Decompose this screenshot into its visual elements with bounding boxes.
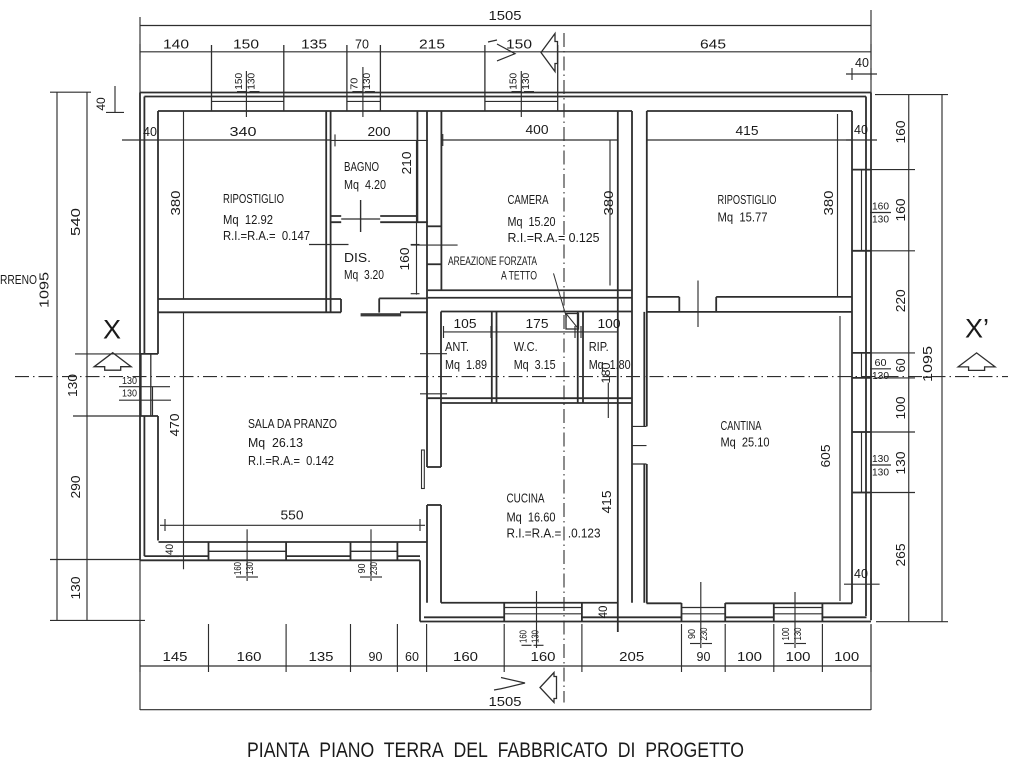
svg-text:550: 550 — [281, 509, 304, 523]
svg-text:X’: X’ — [965, 314, 989, 344]
svg-text:ANT.: ANT. — [445, 339, 469, 354]
wall right inner face — [851, 111, 853, 603]
svg-text:175: 175 — [526, 317, 549, 331]
svg-text:145: 145 — [163, 650, 188, 664]
dim tick cantina window — [794, 592, 796, 648]
left chain tick y=559.5 — [50, 559, 140, 561]
svg-text:415: 415 — [736, 124, 759, 138]
svg-text:Mq 15.20: Mq 15.20 — [508, 214, 556, 229]
right chain line — [908, 95, 910, 622]
extension line top-left corner — [139, 17, 141, 93]
svg-text:380: 380 — [602, 190, 616, 215]
wall left inner face — [157, 111, 159, 541]
svg-text:130: 130 — [246, 73, 258, 90]
svg-text:Mq 15.77: Mq 15.77 — [718, 210, 768, 225]
vent leader line — [554, 273, 567, 317]
svg-text:160: 160 — [518, 630, 530, 643]
svg-text:100: 100 — [894, 396, 908, 419]
extension line bottom-left — [139, 560, 141, 710]
wall right second line — [865, 97, 867, 617]
wall top inner face — [158, 110, 852, 112]
svg-text:CAMERA: CAMERA — [508, 192, 549, 207]
svg-text:40: 40 — [143, 125, 157, 139]
svg-text:40: 40 — [855, 56, 869, 70]
svg-text:150: 150 — [508, 73, 520, 90]
svg-text:130: 130 — [530, 630, 542, 643]
window w2 mullion — [362, 67, 364, 117]
svg-text:130: 130 — [792, 627, 804, 640]
dim chain bottom tick x=581.9 — [581, 624, 583, 672]
wall bottom-left outer face — [140, 559, 420, 561]
bagno door leaf — [360, 200, 362, 232]
camera bottom wall second line — [428, 297, 632, 299]
dim line 340 ripostiglio — [122, 139, 331, 141]
extension line bottom-right — [870, 625, 872, 710]
right window 160 jambs — [852, 169, 871, 171]
section mark > top — [497, 44, 515, 61]
window w1 top jambs — [211, 45, 213, 111]
dim 550 ticks — [164, 519, 166, 531]
cucina window 160 jambs — [503, 603, 505, 622]
cantina window 100 jambs — [773, 603, 775, 622]
ripostiglio-right bottom face — [647, 296, 852, 298]
right window 130 jambs — [852, 431, 871, 433]
sala door 90 sill line — [351, 550, 398, 552]
right window 130 frame — [861, 432, 863, 493]
shaft rung lower — [427, 263, 441, 265]
right window 160 frame — [861, 170, 863, 251]
svg-text:Mq 25.10: Mq 25.10 — [721, 435, 770, 450]
divider wc/rip — [577, 312, 579, 404]
small-rooms block left wall outer — [426, 312, 428, 543]
sala window 160 jambs — [208, 542, 210, 560]
right chain tick y=492.5 — [852, 492, 915, 494]
band wall left upper line — [158, 297, 428, 300]
dim small tick x=617.8 — [617, 326, 619, 338]
window w1 sill line — [212, 100, 284, 102]
left chain tick y=92.2 — [50, 91, 91, 93]
ant door tick lower — [420, 393, 447, 395]
dim chain bottom tick x=681.5 — [681, 624, 683, 672]
dim small tick x=581 — [580, 326, 582, 338]
svg-text:230: 230 — [368, 562, 380, 575]
svg-text:SALA DA PRANZO: SALA DA PRANZO — [248, 416, 337, 431]
svg-text:130: 130 — [244, 562, 256, 575]
dim chain bottom tick x=871 — [870, 624, 872, 672]
section arrow left (up) — [94, 353, 131, 371]
dim chain top line — [140, 51, 871, 53]
dim line 605 cantina — [839, 316, 841, 601]
dim tick sala window — [246, 529, 248, 581]
cucina door leaf — [422, 450, 425, 489]
svg-text:160: 160 — [894, 120, 908, 143]
wall bottom inner face cantina — [647, 602, 853, 604]
svg-text:605: 605 — [819, 444, 833, 467]
svg-text:150: 150 — [506, 38, 532, 52]
small-rooms bottom wall lower — [441, 402, 632, 404]
svg-text:130: 130 — [872, 370, 889, 382]
dim small tick x=575 — [574, 326, 576, 338]
shaft left line — [426, 111, 428, 312]
dim small tick x=443.5 — [443, 326, 445, 338]
wall bottom-left inner face — [159, 541, 428, 543]
left chain tick y=416 — [73, 415, 140, 417]
wall top second line — [144, 96, 866, 98]
svg-text:380: 380 — [822, 190, 836, 215]
dim line 400 camera — [441, 139, 617, 141]
svg-text:Mq 3.15: Mq 3.15 — [514, 357, 556, 372]
svg-text:RIP.: RIP. — [589, 339, 609, 354]
dim line 1505 bottom — [140, 709, 871, 711]
small-rooms block left wall inner — [440, 312, 442, 603]
partition ripostiglio/bagno right line — [330, 111, 332, 313]
svg-text:130: 130 — [122, 375, 137, 387]
dim 40 line right top — [846, 73, 877, 75]
svg-text:470: 470 — [168, 413, 182, 436]
dim chain top tick x=871 — [870, 44, 872, 60]
svg-text:160: 160 — [398, 247, 412, 270]
entrance door panel — [140, 354, 142, 416]
svg-text:130: 130 — [69, 576, 83, 599]
section line X-X horizontal dash-dot — [15, 376, 1008, 378]
right inner sep 1 — [870, 212, 891, 214]
step wall outer — [419, 560, 421, 621]
ripostiglio-right door jambs — [678, 297, 680, 312]
svg-text:140: 140 — [163, 38, 189, 52]
svg-text:R.I.=R.A.= .0.123: R.I.=R.A.= .0.123 — [507, 526, 601, 541]
entrance door frame — [152, 387, 154, 416]
dim chain bottom tick x=286.1 — [285, 624, 287, 672]
svg-text:DIS.: DIS. — [344, 250, 371, 265]
sala door 90 jambs — [350, 542, 352, 560]
dim line 1505 top — [140, 25, 871, 27]
svg-text:130: 130 — [122, 388, 137, 400]
left chain line — [86, 92, 88, 620]
svg-text:A TETTO: A TETTO — [501, 269, 537, 283]
svg-text:90: 90 — [369, 650, 383, 664]
svg-text:130: 130 — [361, 73, 373, 90]
step wall inner — [426, 542, 428, 603]
svg-text:340: 340 — [230, 125, 257, 139]
svg-text:R.I.=R.A.= 0.147: R.I.=R.A.= 0.147 — [223, 228, 310, 243]
divider ant/wc — [491, 312, 493, 404]
dim small tick x=491 — [490, 326, 492, 338]
svg-text:130: 130 — [66, 374, 80, 397]
svg-text:RRENO: RRENO — [0, 273, 37, 287]
right chain tick y=352.9 — [852, 352, 915, 354]
partition camera/ripostiglio-right left line — [617, 111, 619, 632]
svg-text:100: 100 — [786, 650, 811, 664]
window w1 mullion — [245, 71, 247, 117]
camera interior line y245 — [411, 244, 458, 246]
window w3 top jambs — [484, 45, 486, 111]
svg-text:100: 100 — [834, 650, 859, 664]
svg-text:AREAZIONE FORZATA: AREAZIONE FORZATA — [448, 254, 538, 268]
svg-text:Mq 16.60: Mq 16.60 — [507, 510, 556, 525]
camera bottom wall inner face — [441, 311, 632, 313]
left chain tick y=112.4 — [106, 111, 124, 113]
svg-text:90: 90 — [697, 650, 711, 664]
bagno bottom wall — [331, 216, 428, 222]
section arrow top (left) — [541, 34, 558, 72]
dim line 210 bagno — [416, 140, 418, 294]
dim 40 ticks right top — [851, 68, 853, 80]
wall outer right face — [870, 93, 872, 621]
svg-text:R.I.=R.A.= 0.142: R.I.=R.A.= 0.142 — [248, 453, 334, 468]
svg-text:BAGNO: BAGNO — [344, 159, 379, 174]
right inner sep 2 — [870, 368, 891, 370]
svg-text:540: 540 — [69, 208, 83, 236]
dim chain bottom tick x=140 — [139, 624, 141, 672]
svg-text:215: 215 — [419, 38, 445, 52]
svg-text:PIANTA PIANO TERRA DEL FAB: PIANTA PIANO TERRA DEL FABBRICATO DI PRO… — [247, 739, 744, 762]
svg-text:Mq 26.13: Mq 26.13 — [248, 435, 303, 450]
dim tick cantina door — [700, 582, 702, 648]
right window 60 frame — [861, 353, 863, 378]
cantina door tick — [697, 281, 699, 328]
right chain tick y=621.7 — [876, 621, 948, 623]
dim line 380 camera — [609, 140, 611, 286]
partition camera/ripostiglio-right right line — [631, 111, 633, 603]
svg-text:230: 230 — [698, 627, 710, 640]
svg-text:130: 130 — [872, 467, 889, 479]
svg-text:645: 645 — [700, 38, 726, 52]
dim chain top tick x=140 — [139, 44, 141, 60]
svg-text:130: 130 — [872, 453, 889, 465]
svg-text:40: 40 — [94, 97, 108, 111]
right chain tick y=250.8 — [852, 250, 915, 252]
window w3 mullion — [520, 71, 522, 117]
shaft right wall outer line — [643, 312, 645, 603]
dim chain bottom tick x=822.4 — [821, 624, 823, 672]
svg-text:150: 150 — [233, 38, 259, 52]
dim line 105-175-100 — [444, 331, 618, 333]
svg-text:1505: 1505 — [489, 9, 522, 23]
camera bottom wall top face — [428, 289, 632, 291]
cantina side door lines — [632, 426, 647, 464]
section mark > bottom — [501, 678, 525, 689]
right chain tick y=432 — [852, 431, 915, 433]
entrance label separator — [119, 386, 170, 388]
dim chain bottom tick x=504.2 — [503, 624, 505, 672]
svg-text:1095: 1095 — [38, 272, 52, 308]
dim chain bottom tick x=426.6 — [426, 624, 428, 672]
band wall cap at dis door — [340, 299, 342, 312]
svg-text:60: 60 — [894, 358, 908, 372]
right window 60 jambs — [852, 352, 871, 354]
wall bottom second line — [424, 616, 867, 618]
svg-text:380: 380 — [169, 190, 183, 215]
svg-text:60: 60 — [875, 357, 887, 369]
section line Y-Y vertical dash-dot — [563, 33, 565, 703]
cantina top face — [647, 311, 852, 313]
svg-text:400: 400 — [526, 123, 549, 137]
svg-text:160: 160 — [531, 650, 556, 664]
extension line top-right corner — [870, 10, 872, 93]
svg-text:105: 105 — [454, 317, 477, 331]
shaft right line — [440, 111, 442, 290]
dim chain bottom tick x=350.5 — [350, 624, 352, 672]
dim chain bottom tick x=773.8 — [773, 624, 775, 672]
svg-text:40: 40 — [164, 544, 176, 555]
sala window 160 sill line — [209, 550, 287, 552]
partition ripostiglio/bagno left line — [325, 111, 327, 313]
right chain tick y=94.6 — [875, 94, 948, 96]
dis door dark mark — [361, 313, 402, 316]
svg-text:40: 40 — [598, 606, 610, 619]
svg-text:160: 160 — [232, 562, 244, 575]
svg-text:Mq 1.89: Mq 1.89 — [445, 357, 487, 372]
svg-text:415: 415 — [600, 490, 614, 513]
ant door tick upper — [420, 353, 447, 355]
band wall left lower line — [158, 311, 428, 313]
wall outer left face — [139, 93, 141, 561]
left chain tick y=353.9 — [75, 353, 140, 355]
section arrow right (up) — [958, 353, 995, 371]
svg-text:X: X — [103, 315, 121, 345]
svg-text:R.I.=R.A.= 0.125: R.I.=R.A.= 0.125 — [508, 230, 600, 245]
wc vent duct — [566, 314, 579, 330]
ripostiglio door tick — [309, 244, 349, 246]
svg-text:W.C.: W.C. — [514, 339, 538, 354]
svg-text:90: 90 — [686, 629, 698, 639]
svg-text:Mq 4.20: Mq 4.20 — [344, 177, 386, 192]
entrance label separator lower — [119, 399, 171, 401]
window w2 top jambs — [346, 45, 348, 111]
dim chain bottom tick x=397.4 — [396, 624, 398, 672]
dim tick sala door — [370, 529, 372, 581]
svg-text:CUCINA: CUCINA — [507, 491, 545, 506]
svg-text:100: 100 — [598, 317, 621, 331]
wall bottom-left second line — [144, 555, 420, 557]
svg-text:200: 200 — [368, 125, 391, 139]
right chain tick y=169.6 — [852, 169, 915, 171]
dim small tick x=496.5 — [496, 326, 498, 338]
section arrow bottom (left) — [540, 673, 557, 703]
svg-text:160: 160 — [894, 198, 908, 221]
svg-text:Mq 12.92: Mq 12.92 — [223, 212, 273, 227]
svg-text:1095: 1095 — [921, 346, 935, 382]
shaft right wall inner line — [646, 111, 648, 603]
svg-text:210: 210 — [400, 151, 414, 174]
dim 40 line bottom-right — [844, 583, 880, 585]
svg-text:220: 220 — [894, 289, 908, 312]
partition bagno/camera left line — [416, 111, 418, 222]
right inner sep 3 — [870, 464, 891, 466]
wall outer top face — [140, 92, 871, 94]
wall bottom outer face — [420, 621, 871, 623]
dim line 380 ripostiglio-right — [837, 114, 839, 296]
dim chain bottom line — [140, 665, 871, 667]
svg-text:90: 90 — [356, 563, 368, 573]
dim tick cucina window — [536, 591, 538, 648]
svg-text:160: 160 — [237, 650, 262, 664]
svg-text:160: 160 — [872, 201, 889, 213]
svg-text:130: 130 — [872, 214, 889, 226]
entrance door jambs — [140, 354, 158, 416]
dim line 180 rip — [607, 383, 609, 418]
dim line 380 ripostiglio-left — [183, 111, 185, 299]
cucina door jamb caps — [427, 466, 441, 468]
cantina window 100 sill lines — [774, 607, 823, 609]
dim line 550 sala — [160, 524, 425, 526]
right chain tick y=377.9 — [875, 377, 915, 379]
dim 40 line left top — [114, 86, 116, 112]
dim line 470 sala — [183, 313, 185, 569]
svg-text:40: 40 — [854, 567, 868, 581]
svg-text:160: 160 — [453, 650, 478, 664]
svg-text:130: 130 — [894, 451, 908, 474]
dim 40 tick top-right — [846, 139, 877, 141]
shaft rung upper — [427, 225, 441, 227]
bagno door threshold — [341, 218, 380, 220]
dim chain bottom tick x=208.5 — [208, 624, 210, 672]
svg-text:40: 40 — [854, 123, 868, 137]
svg-text:290: 290 — [69, 475, 83, 498]
wall left second line — [143, 97, 145, 557]
svg-text:70: 70 — [355, 38, 369, 52]
svg-text:100: 100 — [737, 650, 762, 664]
left chain outer line 1095 — [56, 92, 58, 620]
window w2 sill line — [347, 100, 381, 102]
svg-text:Mq 1.80: Mq 1.80 — [589, 357, 631, 372]
cantina door 90 sill lines — [682, 607, 726, 609]
dim line 200 bagno — [331, 139, 428, 141]
dim 40 ticks bottom-right — [851, 578, 853, 590]
dim chain bottom tick x=725.2 — [724, 624, 726, 672]
cucina window 160 sill lines — [504, 607, 582, 609]
wall bottom inner face cucina — [441, 602, 618, 604]
svg-text:70: 70 — [348, 78, 360, 90]
svg-text:135: 135 — [301, 38, 327, 52]
svg-text:135: 135 — [309, 650, 334, 664]
svg-text:Mq 3.20: Mq 3.20 — [344, 267, 384, 282]
left chain tick y=620.4 — [50, 619, 145, 621]
svg-text:1505: 1505 — [489, 695, 522, 709]
svg-text:205: 205 — [619, 650, 644, 664]
svg-text:RIPOSTIGLIO: RIPOSTIGLIO — [223, 191, 284, 206]
dim line 415 ripostiglio-right — [647, 139, 852, 141]
cantina door 90 jambs — [681, 603, 683, 622]
svg-text:CANTINA: CANTINA — [721, 418, 762, 433]
small-rooms bottom wall upper — [427, 397, 632, 399]
svg-text:100: 100 — [780, 627, 792, 640]
svg-text:RIPOSTIGLIO: RIPOSTIGLIO — [718, 192, 777, 207]
svg-text:150: 150 — [233, 73, 245, 90]
svg-text:130: 130 — [520, 73, 532, 90]
svg-text:265: 265 — [894, 543, 908, 566]
svg-text:60: 60 — [405, 650, 419, 664]
window w3 sill line — [485, 100, 558, 102]
right chain outer line 1095 — [941, 95, 943, 622]
